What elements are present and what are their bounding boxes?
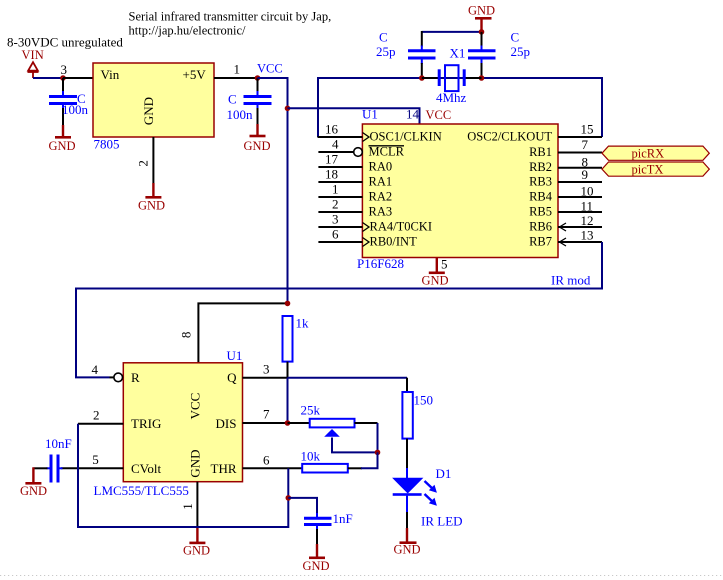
- LED D1 cathode lead black: [406, 512, 408, 529]
- LED D1 anode lead: [406, 468, 408, 479]
- pin stub 7805 pin3: [63, 77, 93, 79]
- pin stub PIC pin4 MCLR: [318, 151, 353, 153]
- pin stub 555 pin3 Q: [243, 377, 288, 379]
- svg-text:RB2: RB2: [529, 160, 552, 174]
- pin stub PIC pin1: [318, 196, 362, 198]
- svg-text:11: 11: [581, 199, 594, 214]
- wire oscillator net horizontal: [318, 77, 602, 79]
- pin stub PIC pin16: [318, 136, 363, 138]
- pin stub 555 pin2 TRIG: [78, 423, 123, 425]
- resistor R1 bottom lead: [287, 362, 289, 378]
- pin stub PIC pin2: [318, 211, 362, 213]
- capacitor C2 100n leads: [257, 78, 259, 125]
- capacitor C2 100n plates: [244, 97, 272, 104]
- wire VCC vertical rail: [287, 77, 289, 303]
- svg-text:3: 3: [263, 362, 270, 377]
- svg-text:http://jap.hu/electronic/: http://jap.hu/electronic/: [129, 24, 247, 38]
- node GND/C4 top: [479, 29, 485, 35]
- node crystal left: [419, 75, 425, 81]
- svg-text:150: 150: [414, 393, 434, 408]
- ground 1nF: [303, 544, 330, 573]
- svg-text:RB5: RB5: [529, 205, 552, 219]
- svg-text:THR: THR: [211, 461, 237, 476]
- svg-text:17: 17: [325, 152, 339, 167]
- pin stub PIC pin6: [318, 241, 362, 243]
- svg-text:+5V: +5V: [183, 67, 207, 82]
- svg-text:RB6: RB6: [529, 220, 552, 234]
- svg-text:C: C: [228, 92, 237, 107]
- svg-text:P16F628: P16F628: [357, 256, 404, 271]
- svg-text:OSC1/CLKIN: OSC1/CLKIN: [370, 130, 442, 144]
- ground 555 pin1: [183, 528, 210, 558]
- resistor R3 10k body: [302, 464, 348, 473]
- wire Q to DIS link: [287, 378, 289, 423]
- wire OSC2 loop down: [601, 77, 603, 137]
- PIC pin name RA4/T0CKI with clock mark: [363, 220, 433, 234]
- wire 25k right down to node: [377, 423, 379, 452]
- svg-text:VCC: VCC: [257, 62, 283, 76]
- pin stub PIC pin7: [558, 152, 602, 154]
- pin stub 555 pin6 THR: [243, 467, 303, 469]
- svg-text:1: 1: [180, 503, 195, 510]
- crystal X1 body: [445, 65, 459, 91]
- capacitor C4 25p plates: [468, 51, 496, 58]
- ground C1: [49, 125, 76, 153]
- svg-text:14: 14: [406, 107, 420, 122]
- svg-text:RB7: RB7: [529, 235, 552, 249]
- IC U1 P16F628 body: [362, 124, 558, 258]
- PIC pin name RB0/INT with clock mark: [363, 235, 418, 249]
- svg-text:GND: GND: [244, 139, 271, 153]
- svg-text:8: 8: [179, 332, 194, 339]
- pin stub PIC pin10: [558, 196, 602, 198]
- svg-text:GND: GND: [183, 544, 210, 558]
- svg-text:25p: 25p: [376, 44, 396, 59]
- svg-text:100n: 100n: [227, 107, 254, 122]
- capacitor C4 25p leads: [481, 32, 483, 78]
- node VIN/C1/7805: [60, 75, 66, 81]
- svg-text:RA2: RA2: [369, 190, 393, 204]
- wire 25p caps top link: [422, 31, 482, 33]
- svg-text:9: 9: [582, 167, 589, 182]
- LED D1 cathode bar: [393, 493, 422, 496]
- svg-text:TRIG: TRIG: [131, 416, 161, 431]
- svg-text:25p: 25p: [511, 44, 531, 59]
- svg-text:RB4: RB4: [529, 190, 553, 204]
- potentiometer R2 25k left lead: [288, 422, 311, 424]
- power port VIN symbol: [28, 62, 39, 78]
- page boundary dotted line: [0, 575, 723, 577]
- wire VIN to node: [33, 77, 63, 79]
- svg-text:2: 2: [332, 197, 339, 212]
- resistor R4 150 top lead: [406, 378, 408, 393]
- pin stub 555 pin5 CVolt: [61, 467, 123, 469]
- node pot/10k: [375, 450, 381, 456]
- pin stub PIC pin17: [318, 166, 362, 168]
- capacitor C1 100n plates: [49, 97, 77, 104]
- pin stub 7805 pin1: [214, 77, 258, 79]
- svg-text:7: 7: [582, 137, 589, 152]
- pin stub 555 pin7 DIS: [243, 422, 288, 424]
- pin4 invert circle: [354, 148, 363, 157]
- regulator U2 7805 body: [93, 63, 214, 137]
- pin stub 555 pin4 R with invert circle: [110, 373, 123, 382]
- svg-text:GND: GND: [394, 543, 421, 557]
- node 1k top / pin8: [285, 301, 291, 307]
- crystal X1 leads: [422, 77, 482, 79]
- svg-text:10: 10: [581, 184, 594, 199]
- pin stub PIC pin18: [318, 181, 362, 183]
- timer U1 555 body: [123, 363, 242, 482]
- svg-text:7805: 7805: [94, 137, 120, 152]
- svg-text:GND: GND: [422, 274, 449, 288]
- pin stub 555 pin1 GND: [196, 482, 198, 527]
- capacitor C6 1nF plates: [304, 518, 332, 524]
- svg-text:RA4/T0CKI: RA4/T0CKI: [370, 220, 433, 234]
- LED D1 cathode lead: [406, 496, 408, 513]
- svg-text:RB3: RB3: [529, 175, 552, 189]
- svg-text:MCLR: MCLR: [369, 145, 405, 159]
- svg-text:15: 15: [581, 122, 594, 137]
- svg-text:3: 3: [332, 212, 339, 227]
- svg-text:13: 13: [581, 228, 594, 243]
- svg-text:4Mhz: 4Mhz: [436, 90, 467, 105]
- potentiometer R2 wiper arrow: [324, 429, 340, 437]
- wire OSC1 loop down: [317, 77, 319, 137]
- svg-text:GND: GND: [141, 97, 156, 125]
- wire TRIG node up to THR: [287, 468, 289, 498]
- PIC pin name RB6 with input mark: [529, 220, 566, 234]
- svg-text:100n: 100n: [62, 102, 89, 117]
- svg-text:4: 4: [332, 137, 339, 152]
- svg-text:RA1: RA1: [369, 175, 393, 189]
- svg-text:RB0/INT: RB0/INT: [370, 235, 418, 249]
- pin stub PIC pin3: [318, 226, 362, 228]
- svg-text:VCC: VCC: [188, 393, 203, 420]
- value label C 25p (C3): [376, 30, 396, 60]
- svg-text:6: 6: [263, 453, 270, 468]
- svg-text:RA0: RA0: [369, 160, 393, 174]
- pin stub PIC pin13: [558, 241, 602, 243]
- node crystal right: [479, 75, 485, 81]
- wire pin8 VCC link (555): [198, 303, 286, 362]
- pin stub PIC pin11: [558, 211, 602, 213]
- pin5 GND stem (PIC): [422, 258, 449, 288]
- wire wiper to node: [332, 438, 378, 453]
- resistor R3 right lead: [348, 467, 362, 469]
- potentiometer R2 25k body: [310, 419, 355, 428]
- svg-text:VCC: VCC: [426, 108, 452, 122]
- PIC pin name RB7 with input mark: [529, 235, 566, 249]
- svg-text:Q: Q: [227, 370, 237, 385]
- ground 7805 pin2: [138, 183, 165, 213]
- svg-text:5: 5: [441, 257, 448, 272]
- svg-text:OSC2/CLKOUT: OSC2/CLKOUT: [467, 130, 552, 144]
- wire node to 1nF: [288, 498, 317, 514]
- node VCC branch to pin14: [285, 106, 291, 112]
- wire VCC node to rail corner: [258, 77, 288, 79]
- svg-text:7: 7: [263, 407, 270, 422]
- pin stub PIC pin12: [558, 226, 602, 228]
- svg-text:C: C: [511, 30, 520, 45]
- svg-text:GND: GND: [468, 4, 495, 18]
- title text: [129, 10, 332, 38]
- svg-text:IR mod: IR mod: [551, 273, 591, 288]
- resistor R1 1k body: [283, 316, 293, 362]
- resistor R4 150 body: [402, 392, 412, 439]
- ground LED: [394, 528, 421, 557]
- value label C 100n (C1): [62, 91, 89, 117]
- PIC pin name OSC1/CLKIN with clock mark: [363, 130, 442, 144]
- PIC pin name MCLR with overline: [369, 145, 405, 159]
- potentiometer R2 right lead: [355, 422, 378, 424]
- svg-text:U1: U1: [362, 107, 378, 122]
- svg-text:picTX: picTX: [632, 163, 664, 177]
- svg-text:GND: GND: [49, 139, 76, 153]
- capacitor C3 25p leads: [421, 31, 423, 78]
- capacitor C6 1nF leads: [316, 513, 318, 545]
- port picRX: [602, 146, 709, 160]
- svg-text:D1: D1: [436, 466, 452, 481]
- svg-text:GND: GND: [188, 449, 203, 477]
- svg-text:1: 1: [234, 62, 241, 77]
- crystal X1 electrode bars: [439, 69, 464, 86]
- resistor R4 bottom lead: [406, 439, 408, 469]
- svg-text:C: C: [379, 30, 388, 45]
- svg-text:LMC555/TLC555: LMC555/TLC555: [94, 483, 189, 498]
- wire TRIG net: [78, 424, 288, 527]
- ground 10nF: [20, 467, 47, 498]
- wire IR mod net: [76, 242, 602, 377]
- svg-text:10k: 10k: [301, 449, 321, 464]
- svg-text:U1: U1: [227, 348, 243, 363]
- svg-text:16: 16: [325, 122, 339, 137]
- svg-text:18: 18: [325, 167, 338, 182]
- svg-text:1: 1: [332, 182, 339, 197]
- svg-text:GND: GND: [303, 559, 330, 573]
- svg-text:X1: X1: [450, 46, 466, 61]
- value label C 25p (C4): [511, 30, 531, 60]
- svg-text:RB1: RB1: [529, 145, 552, 159]
- svg-text:VIN: VIN: [22, 48, 44, 62]
- LED D1 triangle: [393, 478, 422, 493]
- svg-text:3: 3: [61, 62, 68, 77]
- capacitor C1 100n leads: [62, 78, 64, 126]
- wire VCC branch to PIC pin14: [288, 108, 420, 124]
- LED D1 emission arrows: [425, 481, 437, 506]
- pin stub PIC pin15: [558, 136, 602, 138]
- ground top (crystal caps): [468, 4, 495, 33]
- pin stub PIC pin8: [558, 167, 602, 169]
- svg-text:RA3: RA3: [369, 205, 393, 219]
- capacitor C3 25p plates: [408, 51, 436, 58]
- value label C 100n (C2): [227, 92, 254, 123]
- wire Q net to LED branch: [288, 377, 408, 379]
- svg-text:CVolt: CVolt: [131, 461, 161, 476]
- pin stub 7805 pin2: [152, 137, 154, 184]
- svg-text:1k: 1k: [296, 316, 310, 331]
- svg-text:12: 12: [581, 213, 594, 228]
- svg-text:GND: GND: [20, 484, 47, 498]
- svg-text:picRX: picRX: [632, 147, 665, 161]
- capacitor C5 10nF plates: [51, 455, 58, 483]
- port picTX: [602, 162, 709, 177]
- svg-text:R: R: [131, 370, 140, 385]
- pin stub PIC pin9: [558, 181, 602, 183]
- svg-text:10nF: 10nF: [45, 436, 72, 451]
- node DIS: [285, 420, 291, 426]
- svg-text:Vin: Vin: [101, 67, 120, 82]
- svg-text:GND: GND: [138, 199, 165, 213]
- svg-text:2: 2: [136, 160, 151, 167]
- svg-text:2: 2: [93, 408, 100, 423]
- svg-text:DIS: DIS: [216, 416, 237, 431]
- wire 10k right up to node: [361, 452, 378, 468]
- node TRIG/THR/1nF: [286, 495, 292, 501]
- svg-text:4: 4: [92, 362, 99, 377]
- ground C2: [244, 124, 271, 153]
- node VCC: [255, 75, 261, 81]
- svg-text:Serial infrared transmitter ci: Serial infrared transmitter circuit by J…: [129, 10, 332, 24]
- svg-text:5: 5: [92, 452, 99, 467]
- svg-text:25k: 25k: [301, 403, 321, 418]
- svg-text:IR LED: IR LED: [421, 514, 463, 529]
- svg-text:1nF: 1nF: [333, 511, 353, 526]
- svg-text:6: 6: [332, 227, 339, 242]
- capacitor C5 10nF leads: [33, 467, 62, 469]
